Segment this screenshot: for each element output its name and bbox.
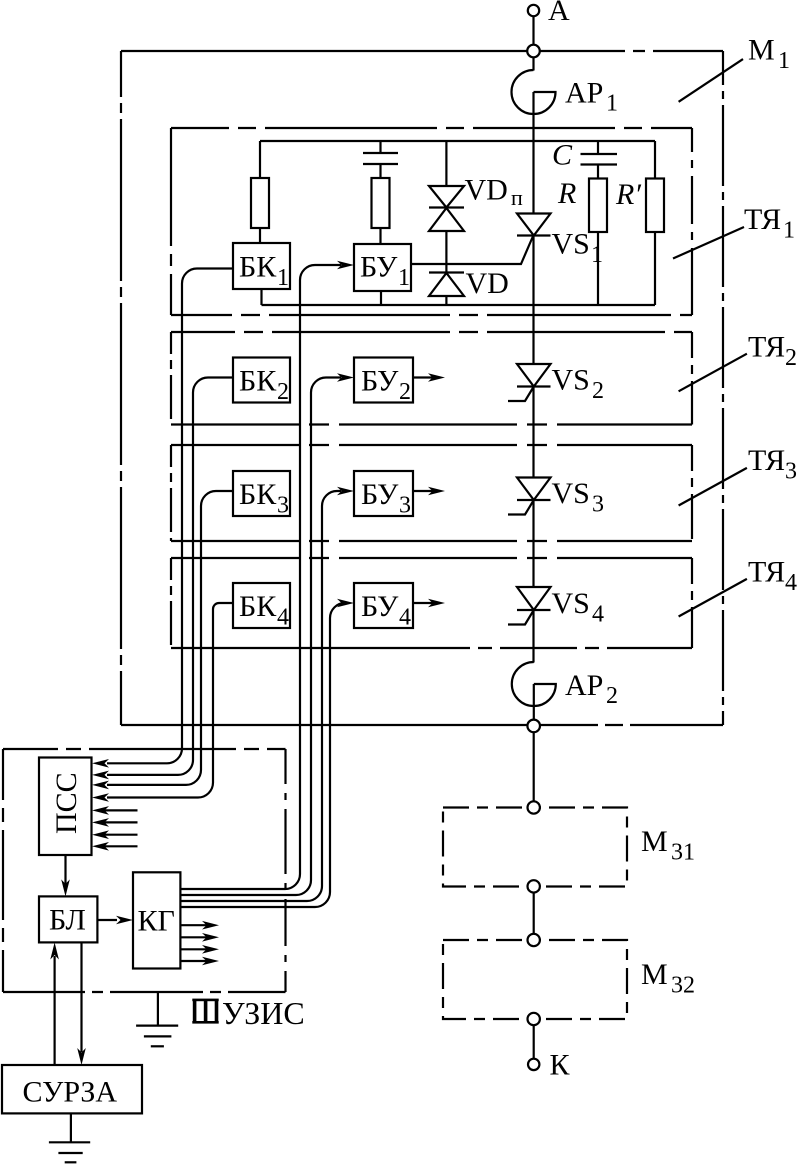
- node on M1 bottom edge: [527, 720, 540, 733]
- leader line TYA1: [673, 227, 744, 259]
- svg-text:VS: VS: [552, 477, 590, 510]
- node M32 top: [528, 934, 540, 946]
- svg-text:3: 3: [399, 493, 411, 519]
- node on M1 top edge: [527, 45, 540, 58]
- wire BK1 bottom to cathode bus: [260, 289, 262, 305]
- wire C to R: [597, 165, 599, 179]
- svg-text:A: A: [548, 0, 570, 27]
- arrowhead PSS input 4: [92, 793, 109, 802]
- arrow PSS to BL: [61, 855, 70, 896]
- arrowhead into BU3: [337, 487, 354, 496]
- ground under SURZA: [49, 1142, 90, 1162]
- svg-text:М: М: [641, 958, 668, 991]
- wire anode bus TYA1: [260, 140, 655, 142]
- wire AP1 to VS1 anode: [532, 92, 534, 214]
- svg-text:БУ: БУ: [360, 251, 398, 284]
- arrowhead PSS input 2: [92, 771, 109, 780]
- wire resistor to BK1: [259, 228, 261, 243]
- wire AP2 to M1 bottom node: [533, 684, 535, 720]
- svg-text:БК: БК: [239, 478, 277, 511]
- label C: [552, 139, 573, 172]
- arrow BL to KG: [97, 916, 133, 925]
- svg-text:ПСС: ПСС: [50, 772, 83, 834]
- label M32: [641, 958, 695, 999]
- wire bus to diode VDp: [445, 141, 447, 186]
- svg-text:ТЯ: ТЯ: [744, 203, 781, 236]
- svg-text:VS: VS: [552, 364, 590, 397]
- wire capacitor to resistor over BU1: [379, 164, 381, 178]
- label K: [550, 1049, 571, 1082]
- terminal K: [528, 1059, 539, 1070]
- wire resistor to BU1: [379, 228, 381, 244]
- wire bus to capacitor over BU1: [379, 141, 381, 153]
- wire node to M31: [533, 732, 535, 801]
- block BU1: [354, 244, 411, 291]
- terminal A: [528, 5, 539, 16]
- svg-text:3: 3: [785, 459, 797, 485]
- wire bus to R': [654, 141, 656, 179]
- svg-text:КГ: КГ: [138, 905, 175, 938]
- svg-text:2: 2: [277, 379, 289, 405]
- wire VS1 cathode to VS2 anode: [532, 236, 534, 365]
- thyristor VS2: [508, 364, 551, 401]
- node M32 bottom: [528, 1013, 540, 1025]
- svg-text:32: 32: [671, 973, 695, 999]
- label UZIS: [222, 995, 305, 1031]
- svg-text:R′: R′: [615, 178, 641, 211]
- wire BU1 to VS1 gate: [411, 236, 533, 265]
- module M31 dash-dot box: [443, 808, 627, 887]
- label R: [557, 177, 576, 210]
- svg-text:1: 1: [783, 218, 795, 244]
- arrow KG output stub 4: [180, 957, 219, 966]
- thyristor VS3: [508, 478, 551, 515]
- arrowhead into BU1: [337, 261, 354, 270]
- arrow PSS input stub 7: [92, 830, 138, 839]
- label TYA4: [748, 556, 797, 597]
- wire VS4 cathode to AP2: [532, 610, 534, 663]
- wire BK2 control to PSS: [107, 378, 233, 775]
- block SURZA: [2, 1065, 142, 1113]
- cabinet M1 dash-dot boundary: [121, 51, 723, 725]
- node M31 top: [528, 801, 540, 813]
- label AP2: [565, 669, 618, 709]
- wire KG to BU4 input: [180, 603, 345, 907]
- svg-text:2: 2: [606, 683, 618, 709]
- svg-text:3: 3: [277, 493, 289, 519]
- resistor over BU1: [372, 178, 390, 228]
- block PSS: [39, 758, 92, 856]
- resistor over BK1: [251, 178, 269, 228]
- wire M32 to terminal K: [533, 1025, 535, 1059]
- arrow KG output stub 3: [180, 945, 219, 954]
- ground under UZIS: [136, 1026, 178, 1047]
- thyristor cell TYA2 dash-dot box: [171, 332, 692, 425]
- wire R to cathode bus: [597, 232, 599, 305]
- svg-text:АР: АР: [565, 669, 603, 702]
- svg-text:ТЯ: ТЯ: [748, 331, 785, 364]
- arrow BU2 output: [413, 373, 445, 382]
- diode VD: [429, 273, 464, 297]
- wire BU1 bottom to cathode bus: [380, 291, 382, 305]
- svg-text:1: 1: [606, 91, 618, 117]
- svg-text:БУ: БУ: [361, 478, 399, 511]
- svg-text:М: М: [748, 34, 775, 67]
- svg-text:R: R: [557, 177, 576, 210]
- svg-text:VS: VS: [552, 228, 590, 261]
- thyristor cell TYA4 dash-dot box: [171, 558, 692, 648]
- wire VS3 cathode to VS4 anode: [532, 500, 534, 587]
- arrowhead into BU2: [337, 373, 354, 382]
- ground stem under SURZA: [70, 1113, 72, 1142]
- svg-text:АР: АР: [565, 77, 603, 110]
- arrow KG output stub 2: [180, 933, 219, 942]
- label TYA3: [748, 444, 797, 485]
- arrow PSS input stub 5: [92, 806, 138, 815]
- svg-text:2: 2: [592, 378, 604, 404]
- label AP1: [565, 77, 618, 117]
- wire C branch from bus: [597, 141, 599, 154]
- wire M31 to M32: [533, 893, 535, 934]
- wire BK3 control to PSS: [107, 491, 233, 785]
- block BK2: [233, 358, 290, 406]
- svg-text:4: 4: [785, 570, 797, 596]
- block BK4: [233, 583, 290, 631]
- thyristor VS1: [517, 214, 551, 236]
- label VS3: [552, 477, 605, 518]
- arrow PSS input stub 8: [92, 842, 138, 851]
- wire VDp to gate wire: [445, 231, 447, 273]
- svg-text:БУ: БУ: [361, 590, 399, 623]
- svg-text:ТЯ: ТЯ: [748, 444, 785, 477]
- wire cathode bus TYA1: [262, 304, 656, 306]
- node M31 bottom: [528, 880, 540, 892]
- svg-text:К: К: [550, 1049, 571, 1082]
- wire BK4 control to PSS: [107, 603, 233, 798]
- reactor AP2: [512, 662, 556, 706]
- svg-text:М: М: [641, 825, 668, 858]
- label TYA2: [748, 331, 797, 372]
- svg-text:СУРЗА: СУРЗА: [23, 1076, 118, 1109]
- svg-text:C: C: [552, 139, 573, 172]
- svg-text:БК: БК: [239, 365, 277, 398]
- label III cabinet numeral: [192, 999, 218, 1024]
- svg-text:31: 31: [671, 840, 695, 866]
- svg-text:БК: БК: [239, 590, 277, 623]
- wire BL to SURZA with down arrow: [77, 943, 86, 1066]
- wire VS2 cathode to VS3 anode: [532, 387, 534, 478]
- block BL: [39, 896, 97, 942]
- arrowhead PSS input 1: [92, 759, 109, 768]
- resistor R: [589, 179, 607, 233]
- arrow BU3 output: [413, 487, 445, 496]
- module M32 dash-dot box: [443, 940, 627, 1019]
- wire VD to cathode bus: [445, 296, 447, 305]
- svg-text:1: 1: [398, 265, 410, 291]
- svg-text:БУ: БУ: [361, 365, 399, 398]
- svg-text:VD: VD: [465, 174, 508, 207]
- block BU4: [354, 583, 413, 631]
- svg-text:2: 2: [785, 345, 797, 371]
- svg-text:1: 1: [277, 265, 289, 291]
- svg-text:1: 1: [778, 48, 790, 74]
- label VS2: [552, 364, 605, 405]
- label R': [615, 178, 641, 211]
- capacitor over BU1: [363, 153, 398, 164]
- wire KG to BU3 input: [180, 491, 341, 901]
- svg-text:VS: VS: [552, 587, 590, 620]
- label M1: [748, 34, 790, 75]
- wire A to M1 top node: [532, 16, 534, 45]
- leader line TYA3: [679, 468, 747, 506]
- wire SURZA to BL with up arrow: [50, 943, 59, 1066]
- capacitor C: [581, 154, 618, 165]
- svg-text:4: 4: [399, 605, 411, 631]
- thyristor cell TYA3 dash-dot box: [171, 445, 692, 541]
- wire node to AP1: [532, 57, 534, 70]
- block BK1: [233, 243, 290, 291]
- svg-text:п: п: [511, 185, 523, 210]
- leader line TYA4: [679, 579, 747, 617]
- svg-text:УЗИС: УЗИС: [222, 995, 305, 1031]
- svg-text:2: 2: [399, 379, 411, 405]
- label VS1: [552, 228, 604, 269]
- block BU3: [354, 471, 413, 519]
- reactor AP1: [512, 70, 556, 114]
- wire R' to cathode bus: [654, 232, 656, 305]
- block BU2: [354, 358, 413, 406]
- svg-text:ТЯ: ТЯ: [748, 556, 785, 589]
- label M31: [641, 825, 695, 866]
- label A: [548, 0, 570, 27]
- ground stem under UZIS: [157, 992, 159, 1026]
- svg-text:БЛ: БЛ: [49, 904, 86, 937]
- cabinet UZIS dash-dot box: [3, 749, 286, 992]
- arrow KG output stub 1: [180, 921, 219, 930]
- svg-text:4: 4: [592, 602, 604, 628]
- leader line TYA2: [679, 354, 747, 392]
- arrowhead into BU4: [337, 599, 354, 608]
- wire KG to BU2 input: [180, 378, 341, 896]
- arrow BU4 output: [413, 599, 445, 608]
- resistor R': [646, 179, 664, 233]
- arrow PSS input stub 6: [92, 818, 138, 827]
- block BK3: [233, 471, 290, 519]
- wire KG to BU1 input: [180, 265, 341, 889]
- label VDp: [465, 174, 524, 211]
- diode VDp bidirectional: [429, 186, 464, 231]
- svg-text:VD: VD: [466, 267, 509, 300]
- label TYA1: [744, 203, 795, 244]
- label VS4: [552, 587, 605, 628]
- wire BK1 control to PSS: [107, 269, 233, 764]
- svg-text:4: 4: [277, 605, 289, 631]
- label VD: [466, 267, 509, 300]
- wire bus to resistor over BK1: [259, 141, 261, 178]
- leader line M1: [679, 59, 743, 102]
- thyristor VS4: [508, 587, 551, 625]
- svg-text:3: 3: [592, 492, 604, 518]
- block KG: [133, 872, 180, 968]
- arrowhead PSS input 3: [92, 781, 109, 790]
- svg-text:БК: БК: [239, 251, 277, 284]
- thyristor cell TYA1 dash-dot box: [171, 128, 692, 315]
